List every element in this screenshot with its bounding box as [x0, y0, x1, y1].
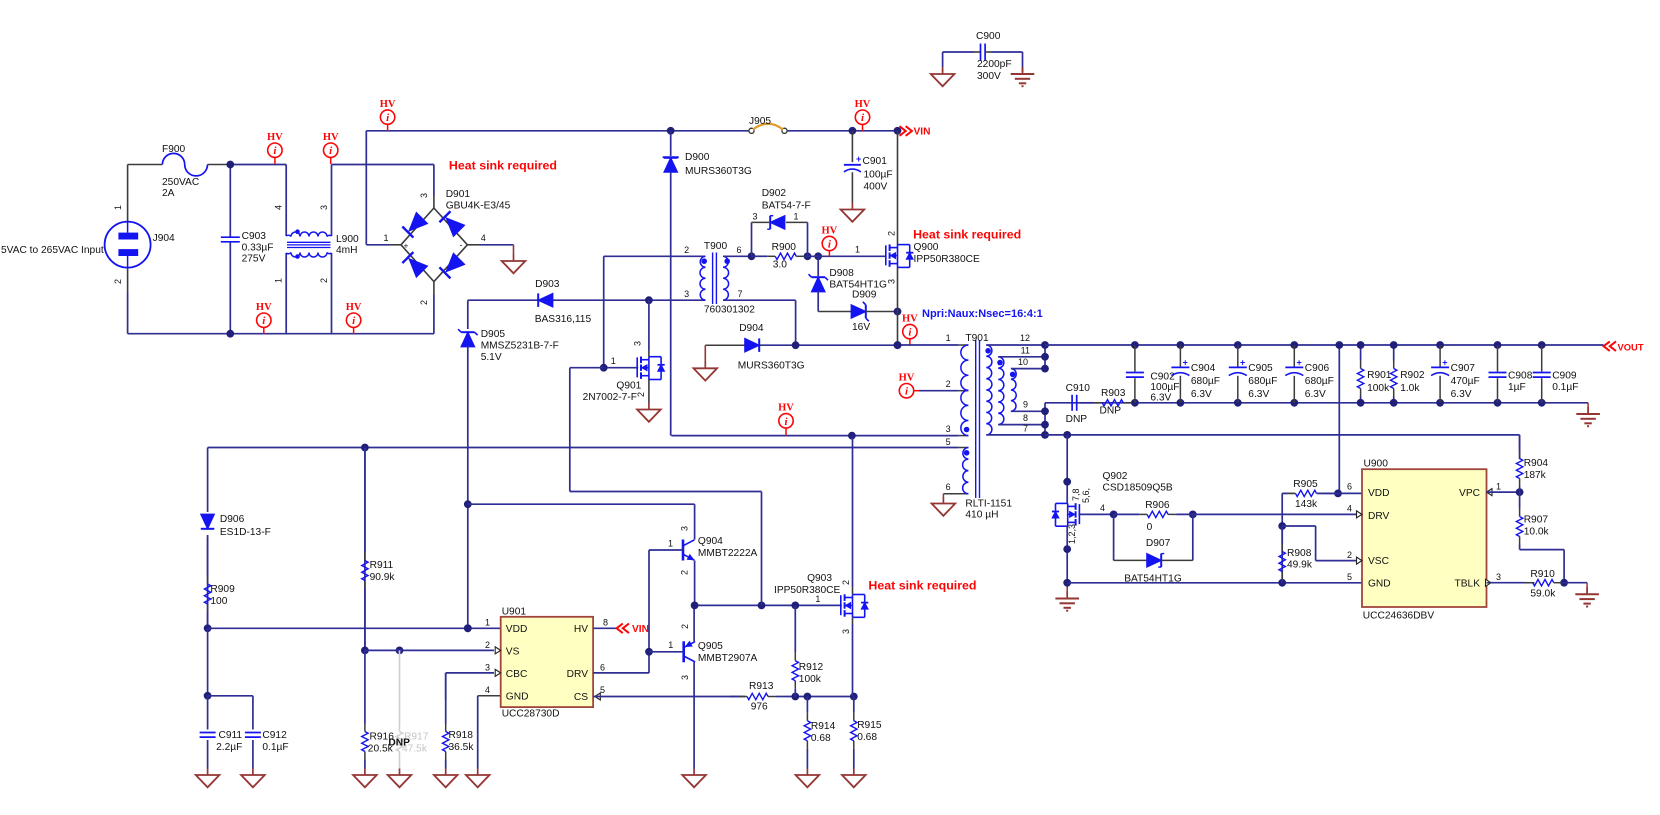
- svg-text:2: 2: [485, 640, 490, 650]
- svg-text:3: 3: [946, 424, 951, 434]
- svg-text:C912: C912: [262, 730, 287, 741]
- svg-text:5VAC to 265VAC Input: 5VAC to 265VAC Input: [1, 245, 104, 256]
- svg-text:HV: HV: [323, 132, 339, 143]
- svg-text:7,8: 7,8: [1071, 488, 1081, 501]
- svg-text:1.0k: 1.0k: [1400, 383, 1420, 394]
- svg-text:+: +: [404, 242, 409, 251]
- svg-text:R910: R910: [1530, 569, 1555, 580]
- svg-text:680µF: 680µF: [1305, 376, 1334, 387]
- svg-text:49.9k: 49.9k: [1287, 560, 1313, 571]
- svg-text:Q904: Q904: [698, 536, 723, 547]
- svg-text:7: 7: [738, 289, 743, 299]
- svg-text:VDD: VDD: [506, 624, 528, 635]
- svg-text:HV: HV: [380, 99, 396, 110]
- svg-text:1: 1: [274, 278, 284, 283]
- svg-text:D901: D901: [446, 189, 471, 200]
- svg-text:2: 2: [684, 245, 689, 255]
- svg-text:2.2µF: 2.2µF: [216, 742, 242, 753]
- svg-text:5: 5: [1347, 572, 1352, 582]
- svg-text:6.3V: 6.3V: [1248, 389, 1269, 400]
- svg-text:0.68: 0.68: [857, 732, 877, 743]
- svg-text:R913: R913: [749, 681, 774, 692]
- svg-text:MMBT2222A: MMBT2222A: [698, 548, 758, 559]
- svg-text:100k: 100k: [799, 674, 822, 685]
- svg-text:J905: J905: [749, 116, 771, 127]
- svg-text:R900: R900: [772, 242, 797, 253]
- svg-text:3: 3: [752, 212, 757, 222]
- svg-text:Q901: Q901: [616, 381, 641, 392]
- svg-text:976: 976: [751, 702, 768, 713]
- svg-text:CSD18509Q5B: CSD18509Q5B: [1103, 483, 1173, 494]
- svg-text:C910: C910: [1066, 383, 1091, 394]
- svg-text:36.5k: 36.5k: [449, 742, 475, 753]
- svg-text:100µF: 100µF: [864, 170, 893, 181]
- svg-text:R909: R909: [210, 584, 235, 595]
- svg-text:9: 9: [1023, 400, 1028, 410]
- svg-text:HV: HV: [574, 624, 588, 635]
- svg-text:R912: R912: [799, 662, 824, 673]
- svg-text:DRV: DRV: [567, 669, 589, 680]
- svg-text:100µF: 100µF: [1150, 382, 1179, 393]
- svg-text:4: 4: [1100, 503, 1105, 513]
- svg-text:GND: GND: [506, 692, 529, 703]
- svg-text:MURS360T3G: MURS360T3G: [738, 361, 805, 372]
- svg-text:R906: R906: [1145, 500, 1170, 511]
- svg-text:470µF: 470µF: [1451, 376, 1480, 387]
- svg-text:3: 3: [684, 289, 689, 299]
- svg-text:C909: C909: [1552, 371, 1577, 382]
- svg-text:143k: 143k: [1295, 499, 1318, 510]
- svg-text:HV: HV: [855, 99, 871, 110]
- svg-text:T901: T901: [965, 333, 989, 344]
- svg-text:R904: R904: [1524, 458, 1549, 469]
- svg-text:16V: 16V: [852, 322, 870, 333]
- svg-text:2200pF: 2200pF: [977, 59, 1012, 70]
- svg-text:D907: D907: [1146, 538, 1171, 549]
- svg-text:12: 12: [1020, 333, 1030, 343]
- svg-text:2N7002-7-F: 2N7002-7-F: [583, 392, 637, 403]
- svg-text:VS: VS: [506, 647, 520, 658]
- svg-text:2: 2: [680, 570, 690, 575]
- svg-text:DNP: DNP: [388, 738, 410, 749]
- svg-text:R908: R908: [1287, 548, 1312, 559]
- svg-text:HV: HV: [267, 132, 283, 143]
- svg-text:TBLK: TBLK: [1455, 579, 1481, 590]
- svg-text:10.0k: 10.0k: [1524, 527, 1550, 538]
- svg-text:R911: R911: [370, 560, 394, 571]
- svg-text:-: -: [460, 240, 463, 250]
- svg-text:90.9k: 90.9k: [370, 572, 396, 583]
- svg-text:1: 1: [668, 640, 673, 650]
- svg-text:1µF: 1µF: [1508, 382, 1526, 393]
- svg-text:DNP: DNP: [1100, 406, 1122, 417]
- svg-text:C904: C904: [1191, 363, 1216, 374]
- svg-text:6: 6: [737, 245, 742, 255]
- svg-text:T900: T900: [704, 241, 728, 252]
- svg-text:+: +: [1442, 357, 1447, 367]
- svg-text:4: 4: [274, 205, 284, 210]
- svg-text:C907: C907: [1451, 363, 1476, 374]
- svg-text:2: 2: [113, 279, 123, 284]
- svg-text:J904: J904: [153, 233, 175, 244]
- svg-text:1: 1: [855, 245, 860, 255]
- svg-text:5.1V: 5.1V: [481, 352, 502, 363]
- svg-text:MMSZ5231B-7-F: MMSZ5231B-7-F: [481, 341, 559, 352]
- svg-text:0.33µF: 0.33µF: [242, 243, 274, 254]
- svg-text:8: 8: [603, 618, 608, 628]
- svg-text:MMBT2907A: MMBT2907A: [698, 653, 758, 664]
- svg-text:410 µH: 410 µH: [965, 510, 998, 521]
- svg-text:1: 1: [113, 205, 123, 210]
- svg-text:2: 2: [319, 278, 329, 283]
- svg-text:1: 1: [1496, 482, 1501, 492]
- svg-text:2: 2: [1347, 550, 1352, 560]
- svg-text:59.0k: 59.0k: [1530, 589, 1556, 600]
- svg-text:100: 100: [210, 596, 227, 607]
- svg-text:D904: D904: [739, 323, 764, 334]
- svg-text:HV: HV: [256, 302, 272, 313]
- svg-text:R907: R907: [1524, 515, 1549, 526]
- svg-text:VPC: VPC: [1459, 488, 1480, 499]
- svg-text:0.1µF: 0.1µF: [262, 742, 288, 753]
- svg-text:11: 11: [1021, 346, 1030, 356]
- svg-text:Heat sink required: Heat sink required: [868, 579, 976, 593]
- svg-text:R902: R902: [1400, 370, 1425, 381]
- svg-text:C900: C900: [976, 31, 1001, 42]
- svg-text:D903: D903: [535, 279, 560, 290]
- svg-text:300V: 300V: [977, 71, 1001, 82]
- svg-text:6.3V: 6.3V: [1191, 389, 1212, 400]
- svg-text:2: 2: [841, 580, 851, 585]
- svg-text:2A: 2A: [162, 188, 175, 199]
- svg-text:3: 3: [419, 193, 429, 198]
- svg-text:3: 3: [680, 675, 690, 680]
- svg-text:+: +: [1183, 357, 1188, 367]
- svg-text:U900: U900: [1364, 459, 1389, 470]
- svg-text:Heat sink required: Heat sink required: [913, 228, 1021, 242]
- svg-text:BAS316,115: BAS316,115: [535, 314, 592, 325]
- svg-text:1: 1: [794, 212, 799, 222]
- svg-text:R915: R915: [857, 720, 882, 731]
- svg-text:6: 6: [600, 663, 605, 673]
- svg-text:DNP: DNP: [1066, 414, 1088, 425]
- svg-text:GBU4K-E3/45: GBU4K-E3/45: [446, 201, 511, 212]
- svg-text:0.68: 0.68: [811, 733, 831, 744]
- svg-text:1: 1: [384, 233, 389, 243]
- svg-text:3: 3: [841, 629, 851, 634]
- svg-text:7: 7: [1023, 424, 1028, 434]
- svg-text:Q905: Q905: [698, 641, 723, 652]
- svg-text:1: 1: [485, 618, 490, 628]
- svg-text:187k: 187k: [1524, 470, 1547, 481]
- svg-text:HV: HV: [899, 373, 915, 384]
- svg-text:Heat sink required: Heat sink required: [449, 159, 557, 173]
- svg-text:400V: 400V: [864, 182, 888, 193]
- svg-text:+: +: [856, 154, 861, 164]
- svg-text:10: 10: [1018, 357, 1028, 367]
- svg-text:VDD: VDD: [1368, 488, 1390, 499]
- svg-text:C906: C906: [1305, 363, 1330, 374]
- svg-text:GND: GND: [1368, 579, 1391, 590]
- svg-text:ES1D-13-F: ES1D-13-F: [220, 527, 271, 538]
- svg-text:C905: C905: [1248, 363, 1273, 374]
- svg-text:3: 3: [485, 663, 490, 673]
- svg-text:0: 0: [1147, 522, 1153, 533]
- svg-text:F900: F900: [162, 144, 186, 155]
- svg-text:1,2,3: 1,2,3: [1067, 524, 1077, 544]
- svg-text:HV: HV: [778, 403, 794, 414]
- svg-text:C908: C908: [1508, 371, 1533, 382]
- svg-text:1: 1: [668, 539, 673, 549]
- svg-text:3: 3: [633, 341, 643, 346]
- svg-text:6.3V: 6.3V: [1150, 393, 1171, 404]
- svg-text:0.1µF: 0.1µF: [1552, 382, 1578, 393]
- svg-text:3: 3: [1496, 572, 1501, 582]
- svg-text:100k: 100k: [1367, 383, 1390, 394]
- svg-text:3: 3: [887, 279, 897, 284]
- svg-text:3: 3: [319, 205, 329, 210]
- svg-text:6.3V: 6.3V: [1305, 389, 1326, 400]
- svg-text:R914: R914: [811, 721, 836, 732]
- svg-text:680µF: 680µF: [1248, 376, 1277, 387]
- svg-text:250VAC: 250VAC: [162, 177, 199, 188]
- svg-text:VIN: VIN: [914, 127, 931, 138]
- svg-text:UCC24636DBV: UCC24636DBV: [1363, 611, 1435, 622]
- svg-text:UCC28730D: UCC28730D: [502, 709, 560, 720]
- svg-text:4mH: 4mH: [336, 245, 358, 256]
- svg-text:6.3V: 6.3V: [1451, 389, 1472, 400]
- svg-text:CBC: CBC: [506, 669, 528, 680]
- svg-text:R918: R918: [449, 730, 474, 741]
- svg-text:3.0: 3.0: [773, 260, 787, 271]
- svg-text:U901: U901: [502, 607, 527, 618]
- svg-text:8: 8: [1023, 413, 1028, 423]
- svg-text:1: 1: [611, 356, 616, 366]
- svg-text:4: 4: [1347, 504, 1352, 514]
- svg-text:+: +: [1297, 357, 1302, 367]
- svg-text:CS: CS: [574, 692, 588, 703]
- svg-text:275V: 275V: [242, 254, 266, 265]
- svg-text:D906: D906: [220, 514, 245, 525]
- svg-text:2: 2: [946, 379, 951, 389]
- svg-text:R903: R903: [1101, 388, 1126, 399]
- svg-text:2: 2: [887, 231, 897, 236]
- svg-text:R901: R901: [1367, 370, 1392, 381]
- svg-text:C903: C903: [242, 231, 267, 242]
- svg-text:6: 6: [946, 482, 951, 492]
- svg-text:2: 2: [636, 392, 646, 397]
- svg-text:+: +: [1240, 357, 1245, 367]
- svg-text:VIN: VIN: [632, 624, 649, 635]
- svg-text:HV: HV: [902, 313, 918, 324]
- svg-text:680µF: 680µF: [1191, 376, 1220, 387]
- svg-text:HV: HV: [822, 225, 838, 236]
- svg-text:IPP50R380CE: IPP50R380CE: [774, 585, 840, 596]
- svg-text:L900: L900: [336, 234, 359, 245]
- svg-text:D902: D902: [762, 188, 787, 199]
- svg-text:3: 3: [680, 526, 690, 531]
- svg-text:Q903: Q903: [807, 573, 832, 584]
- svg-text:Npri:Naux:Nsec=16:4:1: Npri:Naux:Nsec=16:4:1: [922, 308, 1043, 320]
- svg-text:2: 2: [419, 300, 429, 305]
- svg-text:D908: D908: [829, 268, 854, 279]
- svg-text:1: 1: [946, 333, 951, 343]
- svg-text:D900: D900: [685, 152, 710, 163]
- svg-text:6: 6: [1347, 482, 1352, 492]
- svg-text:IPP50R380CE: IPP50R380CE: [914, 254, 980, 265]
- svg-text:4: 4: [485, 685, 490, 695]
- svg-text:C901: C901: [863, 156, 888, 167]
- svg-text:BAT54-7-F: BAT54-7-F: [762, 201, 811, 212]
- svg-text:D905: D905: [481, 329, 506, 340]
- svg-text:Q900: Q900: [914, 242, 939, 253]
- svg-text:5,6,: 5,6,: [1081, 488, 1091, 503]
- svg-text:2: 2: [680, 624, 690, 629]
- svg-text:RLTI-1151: RLTI-1151: [965, 499, 1012, 510]
- svg-text:4: 4: [481, 233, 486, 243]
- svg-text:Q902: Q902: [1103, 471, 1128, 482]
- svg-text:DRV: DRV: [1368, 511, 1390, 522]
- svg-text:R905: R905: [1293, 479, 1318, 490]
- svg-text:760301302: 760301302: [704, 305, 755, 316]
- svg-text:C902: C902: [1150, 372, 1175, 383]
- svg-text:C911: C911: [219, 730, 243, 741]
- svg-text:5: 5: [946, 437, 951, 447]
- svg-text:VOUT: VOUT: [1618, 342, 1644, 353]
- svg-text:VSC: VSC: [1368, 556, 1389, 567]
- svg-text:D909: D909: [852, 290, 877, 301]
- svg-text:HV: HV: [346, 302, 362, 313]
- svg-text:MURS360T3G: MURS360T3G: [685, 166, 752, 177]
